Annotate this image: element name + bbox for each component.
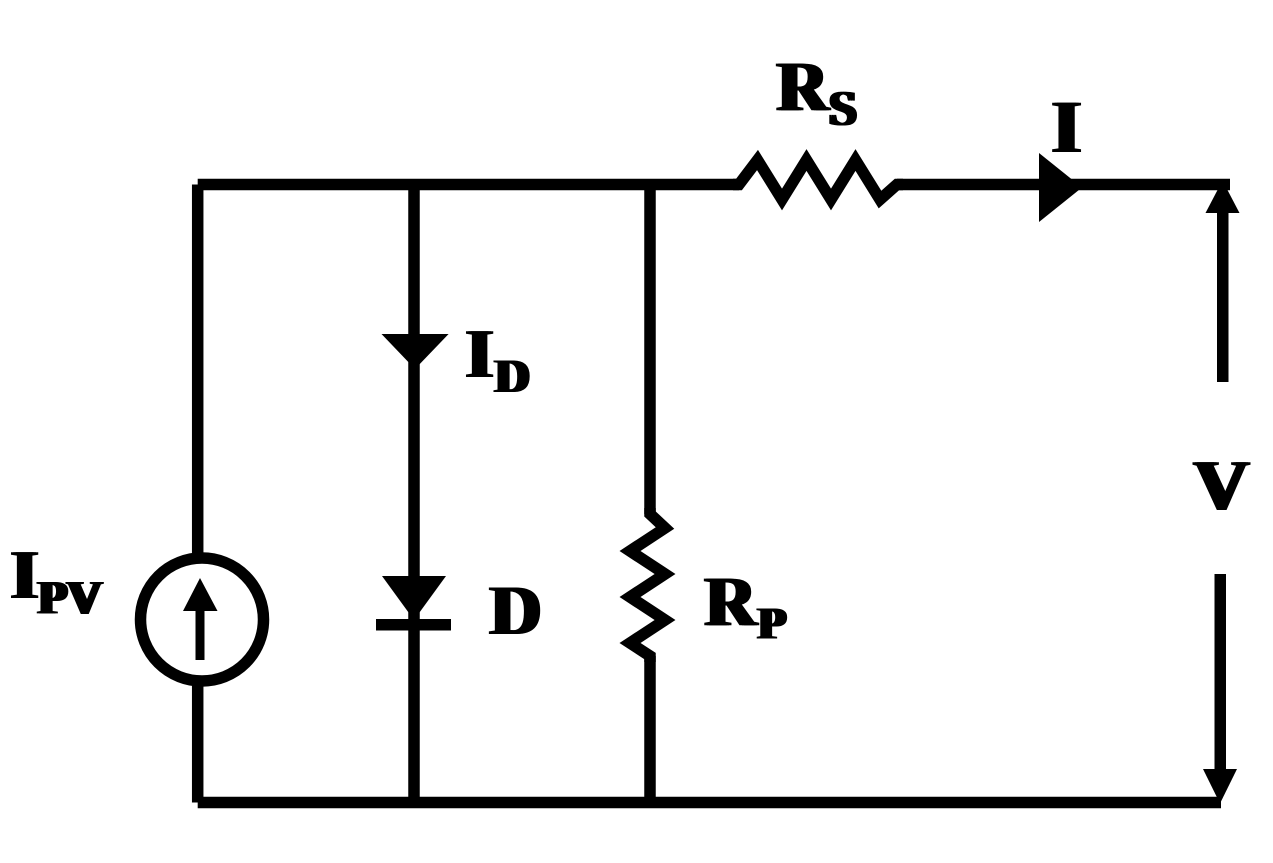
wire Rp branch upper (vertical) xyxy=(644,185,656,515)
current arrow ID (down arrowhead on diode branch) xyxy=(382,334,449,369)
wire diode branch (vertical) xyxy=(408,185,420,803)
diode D (triangle) xyxy=(382,576,446,620)
current source IPV (internal up arrow) xyxy=(196,608,205,660)
current arrow I (arrowhead on top wire) xyxy=(1039,153,1082,222)
svg-text:D: D xyxy=(490,572,541,650)
svg-text:P: P xyxy=(758,598,786,649)
wire left (vertical, positive column) xyxy=(192,185,204,803)
voltage arrow V lower (shaft + down arrowhead at bottom wire) xyxy=(1215,574,1227,770)
svg-text:I: I xyxy=(1052,86,1081,169)
wire bottom (return conductor) xyxy=(198,797,1221,809)
svg-text:V: V xyxy=(1194,447,1249,525)
wire top (right segment, from Rs to output terminal) xyxy=(897,179,1230,191)
svg-text:R: R xyxy=(777,48,829,126)
wire top (left segment, node between Ipv/diode/Rp and Rs) xyxy=(198,179,739,191)
voltage arrow V upper (shaft + up arrowhead at top wire) xyxy=(1217,208,1229,382)
svg-text:S: S xyxy=(829,80,857,136)
svg-text:I: I xyxy=(11,537,38,614)
resistor RS (series, horizontal zigzag) xyxy=(733,160,903,200)
current source IPV (circle) xyxy=(141,558,264,681)
svg-text:PV: PV xyxy=(38,572,102,625)
diode D (cathode bar) xyxy=(376,619,451,631)
svg-text:I: I xyxy=(466,316,493,393)
svg-text:R: R xyxy=(705,563,757,641)
wire Rp branch lower (vertical) xyxy=(644,656,656,803)
svg-text:D: D xyxy=(495,350,530,403)
resistor RP (shunt, vertical zigzag) xyxy=(630,508,665,662)
